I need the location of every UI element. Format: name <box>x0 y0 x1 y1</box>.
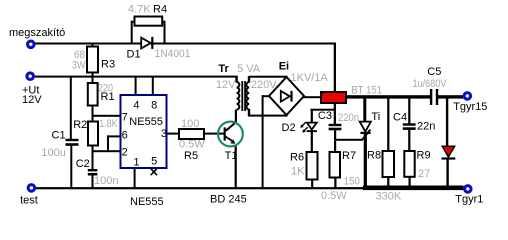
wire secondary top lead <box>248 76 250 83</box>
svg-text:1.8K: 1.8K <box>99 118 118 130</box>
wire pin1 stub <box>134 168 136 188</box>
transformer Tr primary winding <box>237 82 240 110</box>
svg-text:test: test <box>20 194 38 206</box>
diode red Tgyr <box>442 146 456 159</box>
svg-text:3: 3 <box>161 128 167 140</box>
svg-text:D1: D1 <box>127 48 141 60</box>
svg-text:12V: 12V <box>22 94 42 106</box>
wire R7 top lead <box>334 141 336 153</box>
svg-text:C2: C2 <box>76 158 90 170</box>
resistor R7 <box>330 152 341 178</box>
wire pin6 link <box>107 135 121 137</box>
svg-text:R4: R4 <box>153 3 167 15</box>
bridge rectifier Ei diamond <box>269 77 304 115</box>
svg-text:100u: 100u <box>41 147 65 159</box>
terminal Tgyr15 <box>463 91 473 101</box>
wire thick output rail right of C5 <box>438 95 464 98</box>
svg-text:C4: C4 <box>393 112 407 124</box>
wire pin7 link <box>92 115 121 117</box>
resistor R1 <box>88 83 98 106</box>
transformer core <box>241 81 243 111</box>
wire pin8 stub <box>152 77 154 95</box>
svg-text:100n: 100n <box>94 175 118 187</box>
wire bridge right to BT151 <box>304 96 323 98</box>
svg-text:22n: 22n <box>417 121 435 133</box>
wire bridge left drop to ground <box>262 95 264 188</box>
wire pin2 link <box>92 150 122 152</box>
wire megszakito top line <box>35 43 336 45</box>
wire right drop upper <box>446 97 448 147</box>
svg-text:220V: 220V <box>251 79 277 91</box>
svg-text:C3: C3 <box>318 110 332 122</box>
wire primary top lead <box>235 76 237 83</box>
capacitor C3 <box>329 124 342 131</box>
svg-text:1K: 1K <box>291 166 305 178</box>
wire R3 bottom lead <box>92 72 94 76</box>
transistor T1 <box>218 122 243 147</box>
svg-text:8: 8 <box>151 99 157 111</box>
capacitor C2 <box>88 169 98 176</box>
wire C4 to R9 <box>408 130 410 151</box>
svg-text:BD 245: BD 245 <box>210 193 247 205</box>
wire ground rail thin <box>36 187 365 189</box>
capacitor C4 <box>403 123 416 130</box>
resistor R6 <box>307 152 318 180</box>
svg-text:330K: 330K <box>376 191 402 203</box>
wire secondary bottom line to bridge <box>248 115 288 117</box>
svg-text:R9: R9 <box>417 150 431 162</box>
thyristor Ti <box>360 122 371 134</box>
svg-text:R6: R6 <box>290 151 304 163</box>
svg-text:1KV/1A: 1KV/1A <box>291 72 329 84</box>
diode D1 <box>141 37 153 49</box>
wire C1 top branch <box>70 77 72 139</box>
svg-text:27: 27 <box>418 168 430 180</box>
svg-text:3W: 3W <box>72 60 86 72</box>
LED D2 <box>300 122 317 132</box>
wire R1-R2 junction <box>92 105 94 122</box>
capacitor C1 <box>66 139 79 146</box>
wire Ti cathode thick <box>364 134 367 186</box>
wire D2 top lead <box>311 111 313 123</box>
bridge inner diode <box>281 91 293 102</box>
wire bridge left corner link <box>262 95 270 97</box>
wire thick output rail left of C5 <box>346 95 431 98</box>
svg-text:1: 1 <box>133 157 139 169</box>
capacitor C5 <box>430 89 438 105</box>
wire R8 bottom lead <box>387 177 389 186</box>
wire C1 bottom lead <box>70 146 72 188</box>
svg-text:R3: R3 <box>101 59 115 71</box>
wire R1 top lead <box>92 77 94 83</box>
svg-text:7: 7 <box>122 112 128 124</box>
svg-text:Ti: Ti <box>371 111 380 123</box>
resistor R9 <box>404 151 414 177</box>
svg-text:1u/680V: 1u/680V <box>413 78 448 90</box>
resistor R3 <box>87 47 98 73</box>
wire secondary bottom lead <box>248 109 250 116</box>
svg-text:C5: C5 <box>427 66 441 78</box>
svg-text:2: 2 <box>122 147 128 159</box>
wire pin4 stub <box>135 77 137 95</box>
wire R8 top lead <box>387 99 389 152</box>
wire R9 bottom lead <box>409 177 411 186</box>
wire D2/C3 top link <box>311 109 337 111</box>
transformer Tr secondary winding <box>246 82 249 110</box>
svg-text:1N4001: 1N4001 <box>155 48 191 60</box>
svg-text:Tr: Tr <box>218 63 229 75</box>
svg-text:220n: 220n <box>338 112 359 124</box>
wire C3 bottom lead <box>334 130 336 140</box>
svg-text:D2: D2 <box>282 122 296 134</box>
svg-text:12V: 12V <box>216 79 236 91</box>
wire ground rail thick <box>363 186 464 191</box>
resistor R5 <box>179 129 204 139</box>
wire pin6-pin2 jog <box>107 135 109 151</box>
wire T1 collector vertical <box>235 110 237 124</box>
resistor R4 <box>135 17 163 26</box>
resistor R2 <box>88 122 98 146</box>
wire secondary top line to bridge <box>249 76 288 78</box>
wire D2 to R6 <box>311 132 313 152</box>
terminal +Ut <box>25 71 35 81</box>
terminal megszakito <box>26 40 36 50</box>
wire R6 bottom lead <box>311 180 313 188</box>
wire C2 bottom lead <box>92 175 94 188</box>
thyristor BT151 red box <box>321 92 346 103</box>
svg-text:6: 6 <box>122 129 128 141</box>
wire R7 bottom lead <box>334 178 336 188</box>
svg-text:5 VA: 5 VA <box>237 63 261 75</box>
svg-text:4.7K: 4.7K <box>128 3 151 15</box>
terminal test <box>27 183 37 193</box>
svg-text:BT 151: BT 151 <box>351 85 382 97</box>
svg-text:0.5W: 0.5W <box>321 190 347 202</box>
pin5 no-connect x <box>151 168 157 175</box>
svg-text:T1: T1 <box>225 150 238 162</box>
svg-text:150: 150 <box>344 176 360 188</box>
wire +Ut rail <box>35 76 238 78</box>
svg-text:NE555: NE555 <box>130 196 164 208</box>
resistor R8 <box>383 151 395 177</box>
wire R2 bottom lead <box>92 145 94 169</box>
op-amp U1 NE555 box <box>121 95 167 168</box>
svg-text:R8: R8 <box>367 150 381 162</box>
svg-text:100: 100 <box>181 118 199 130</box>
wire R4 left lead <box>131 21 135 23</box>
wire T1 emitter vertical <box>235 146 237 188</box>
wire megszakito vertical drop to gate node <box>334 43 336 124</box>
wire R3 top lead <box>92 44 94 47</box>
wire Ti gate diagonal <box>362 130 371 141</box>
svg-text:megszakító: megszakító <box>9 27 65 39</box>
svg-text:Ei: Ei <box>279 60 289 72</box>
svg-text:4: 4 <box>133 99 139 111</box>
wire gate line horizontal <box>334 139 362 141</box>
svg-text:Tgyr15: Tgyr15 <box>453 101 487 113</box>
svg-text:R5: R5 <box>184 150 198 162</box>
wire Ti anode thick <box>363 98 366 122</box>
svg-text:Tgyr1: Tgyr1 <box>455 193 483 205</box>
wire R4 right lead <box>162 21 166 23</box>
svg-text:C1: C1 <box>52 129 66 141</box>
terminal Tgyr1 <box>463 184 473 194</box>
wire R5 to T1 base <box>204 133 224 135</box>
svg-text:R2: R2 <box>73 119 87 131</box>
svg-text:R7: R7 <box>342 150 356 162</box>
wire pin3 link <box>167 133 180 135</box>
svg-text:NE555: NE555 <box>129 116 163 128</box>
wire right drop lower <box>446 159 448 186</box>
wire C4 top lead <box>408 99 410 124</box>
svg-text:R1: R1 <box>101 91 115 103</box>
svg-text:5: 5 <box>151 156 157 168</box>
